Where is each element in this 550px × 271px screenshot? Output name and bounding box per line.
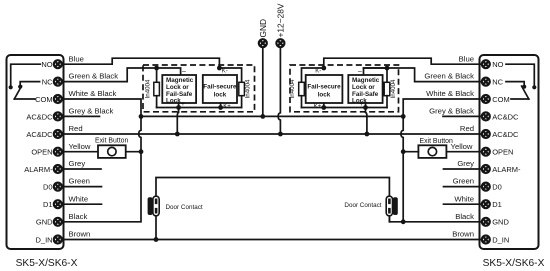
wire + node down to Red bus with hop over GND bus (left) [177,108,178,135]
svg-text:White & Black: White & Black [69,89,117,98]
svg-text:D1: D1 [43,200,53,209]
svg-text:D0: D0 [492,183,502,192]
wire White & Black: left COM down to GND bus [62,99,141,114]
pin stub + of magnetic lock (left) [178,103,180,108]
svg-text:GND: GND [258,19,268,38]
node wire: K- dot to right diode top (left box) [219,68,241,82]
svg-text:Lock or: Lock or [166,84,189,91]
svg-text:SK5-X/SK6-X: SK5-X/SK6-X [483,258,545,269]
terminal COM (left block, pin 3) [54,95,62,103]
svg-text:In4004: In4004 [390,79,397,98]
lock enclosure dashed box (left) [143,65,255,112]
svg-text:lock: lock [214,91,227,98]
exit button circle (left) [108,147,116,155]
junction dot +12~28V / Red bus [278,132,283,137]
terminal COM (right block, pin 3) [482,95,490,103]
junction dot K- (left box) [217,66,222,71]
door contact reed switch part (left) [153,196,159,216]
inner bottom wire (left box): diode to + to K+ to diode [157,107,242,109]
wire Yellow: right OPEN to exit button [446,151,482,153]
svg-text:Exit Button: Exit Button [420,138,453,145]
svg-text:AC&DC: AC&DC [492,112,519,121]
right vertical GND branch with hop over Red bus, down to Black wire [401,116,403,220]
terminal ALARM- (left block, pin 7) [54,165,62,173]
svg-text:Lock or: Lock or [352,84,375,91]
svg-text:Green: Green [453,177,474,186]
svg-text:Grey & Black: Grey & Black [429,107,474,116]
terminal D_IN (right block, pin 11) [482,236,490,244]
terminal NO (right block, pin 1) [482,60,490,68]
junction dot + branch / Red bus (right) [365,132,370,137]
wire Green & Black: right NC to magnetic lock minus node [364,68,482,82]
junction dot minus node / left diode top (left box) [154,66,159,71]
svg-text:In4004: In4004 [245,79,252,98]
svg-text:Blue: Blue [459,54,474,63]
wire right exit button to GND branch [403,151,418,153]
terminal D0 (left block, pin 8) [54,183,62,191]
junction dot + branch / Red bus (left) [175,132,180,137]
svg-text:NC: NC [492,78,503,87]
keypad terminal block SK5-X/SK6-X (left) [7,55,64,249]
node wire minus to right diode (right box) [364,68,388,82]
junction dot exit button / GND branch (right) [401,149,406,154]
terminal AC&DC (left block, pin 4) [54,112,62,120]
door contact magnet part (left) [148,197,153,215]
svg-text:White & Black: White & Black [426,89,474,98]
wire White stub (left D1) [62,203,102,205]
svg-text:Red: Red [69,124,83,133]
inner bottom wire (right box) [302,107,388,109]
terminal NC (left block, pin 2) [54,78,62,86]
terminal ALARM- (right block, pin 7) [482,165,490,173]
svg-text:Grey & Black: Grey & Black [69,107,114,116]
wire Grey stub (left ALARM-) [62,168,101,170]
relay switch lever (left block) [14,86,21,99]
svg-text:+: + [359,101,363,108]
terminal AC&DC (right block, pin 4) [482,112,490,120]
flyback diode In4004 (right box, left) body [299,82,305,95]
exit button switch body (right) [418,145,446,158]
svg-text:Yellow: Yellow [451,142,473,151]
wire exit button (left) to GND branch [126,151,141,153]
svg-text:OPEN: OPEN [31,148,52,157]
svg-text:Door Contact: Door Contact [166,204,203,211]
wire + node down to Red bus with hop over GND bus (right) [366,108,367,135]
keypad terminal block SK5-X/SK6-X (right) [480,55,539,249]
wire Yellow: left OPEN to exit button [62,151,98,153]
relay contact NO arm (right block) [506,64,534,85]
terminal OPEN (left block, pin 6) [54,148,62,156]
terminal D1 (right block, pin 9) [482,200,490,208]
junction dot minus node / right diode top (right box) [385,66,390,71]
svg-text:Black: Black [455,212,474,221]
svg-text:K-: K- [315,68,321,74]
terminal OPEN (right block, pin 6) [482,148,490,156]
power terminal GND (top) [259,39,267,47]
svg-text:ALARM-: ALARM- [492,165,521,174]
wire Blue: left NO to K- node of left fail-secure lock [62,58,220,66]
svg-text:K+: K+ [223,104,231,110]
terminal D_IN (left block, pin 11) [54,236,62,244]
flyback diode In4004 (left box, left) body [156,68,158,82]
svg-text:Door Contact: Door Contact [344,202,381,209]
svg-text:Exit Button: Exit Button [95,138,128,145]
svg-text:AC&DC: AC&DC [26,130,53,139]
relay NO contact dot (left) [9,85,13,89]
svg-text:White: White [454,194,474,203]
exit button circle (right) [428,147,436,155]
wire Green & Black: left NC to magnetic lock minus node [62,68,181,82]
svg-text:–: – [182,68,186,75]
svg-text:Brown: Brown [69,230,91,239]
svg-text:Fail-secure: Fail-secure [203,84,237,91]
wire White & Black: right COM down to GND bus [403,99,482,114]
svg-text:+12~28V: +12~28V [275,3,285,37]
svg-text:Brown: Brown [452,230,474,239]
junction dot COM/GND bus (right) [401,114,406,119]
wire Grey & Black stub (left AC&DC) [62,115,100,117]
svg-text:White: White [69,194,89,203]
wire Green stub (left D0) [62,186,102,188]
junction dot K- (right box) [321,66,326,71]
svg-text:AC&DC: AC&DC [26,112,53,121]
relay switch lever (right block) [522,86,529,99]
svg-text:Grey: Grey [69,159,86,168]
svg-text:Yellow: Yellow [69,142,91,151]
terminal D0 (right block, pin 8) [482,183,490,191]
wire from +12~28V terminal down, hops GND bus, to Red bus [278,47,280,134]
svg-text:D_IN: D_IN [36,235,53,244]
door contact bus wire between both door contacts [156,178,389,240]
svg-text:In4004: In4004 [144,79,151,98]
door contact reed switch part (right) [386,196,392,216]
svg-text:Magnetic: Magnetic [352,77,380,84]
svg-text:ALARM-: ALARM- [24,165,53,174]
svg-text:K-: K- [222,68,228,74]
fail-secure lock box (left) [203,75,237,103]
relay NO contact dot (right) [532,85,536,89]
svg-text:GND: GND [492,218,509,227]
svg-text:COM: COM [35,95,53,104]
svg-text:Green: Green [69,177,90,186]
magnetic lock box (left) [162,75,196,103]
junction dot COM/GND bus (left) [139,114,144,119]
flyback diode In4004 (right box, right) body [384,82,390,95]
junction dot GND branch / Black wire (right) [401,219,406,224]
fail-secure lock box (right) [306,75,343,103]
relay contact NC arm (left block) [20,82,39,85]
relay contact NO arm (left block) [11,64,41,85]
svg-text:Fail-secure: Fail-secure [307,84,341,91]
wire from GND terminal down to GND bus [262,47,264,114]
svg-text:lock: lock [318,91,331,98]
wire Green stub (right D0) [444,186,482,188]
svg-text:NO: NO [41,60,52,69]
svg-text:In4004: In4004 [289,79,296,98]
terminal NO (left block, pin 1) [54,60,62,68]
node wire: left diode top to K- dot (right box) [302,68,324,82]
pin stub K+ of fail-secure lock (right) [323,103,325,108]
power terminal +12~28V (top) [276,39,284,47]
svg-text:Green & Black: Green & Black [424,72,474,81]
junction dot exit button / GND branch (left) [139,149,144,154]
svg-text:SK5-X/SK6-X: SK5-X/SK6-X [16,258,78,269]
svg-text:GND: GND [36,218,53,227]
terminal AC&DC (left block, pin 5) [54,130,62,138]
relay NC contact dot (right) [522,85,526,89]
junction dot door contact / Brown bus (left) [154,237,159,242]
magnetic lock box (right) [348,75,382,103]
terminal GND (left block, pin 10) [54,218,62,226]
svg-text:Blue: Blue [69,54,84,63]
wire Black: right GND terminal to door contact and GND branch [389,216,482,222]
terminal GND (right block, pin 10) [482,218,490,226]
svg-text:COM: COM [492,95,510,104]
GND bus (horizontal, under lock enclosures) [141,115,403,117]
left vertical GND branch with hop over Red bus, to exit button and left GND terminal [62,116,141,221]
Brown bus: D_IN line between both blocks [62,239,482,241]
svg-text:OPEN: OPEN [492,148,513,157]
svg-text:NO: NO [492,60,503,69]
flyback diode In4004 (left box, right) body [239,82,245,95]
svg-text:D1: D1 [492,200,502,209]
svg-text:Magnetic: Magnetic [166,77,194,84]
svg-text:Red: Red [460,124,474,133]
relay NC contact dot (left) [18,85,22,89]
relay COM wire (right block) [511,98,529,100]
relay contact NC arm (right block) [506,82,524,85]
terminal AC&DC (right block, pin 5) [482,130,490,138]
lock enclosure dashed box (right) [290,65,399,112]
relay COM wire (left block) [14,98,35,100]
wire Blue: right NO to K- node of right fail-secure lock [324,58,482,66]
terminal NC (right block, pin 2) [482,78,490,86]
wire White stub (right D1) [444,203,482,205]
junction dot GND terminal / GND bus [260,114,265,119]
Red bus: +12~28V power rail between both AC&DC terminals [62,133,482,135]
pin stub K+ of fail-secure lock (left) [220,103,222,108]
pin stub + of magnetic lock (right) [365,103,367,108]
svg-text:NC: NC [42,78,53,87]
svg-text:–: – [358,68,362,75]
door contact magnet part (right) [393,197,398,215]
svg-text:+: + [181,101,185,108]
wire Grey & Black stub (right AC&DC) [443,115,482,117]
wire Grey stub (right ALARM-) [444,168,482,170]
svg-text:Grey: Grey [457,159,474,168]
terminal D1 (left block, pin 9) [54,200,62,208]
svg-text:D_IN: D_IN [492,235,509,244]
svg-text:Black: Black [69,212,88,221]
svg-text:AC&DC: AC&DC [492,130,519,139]
exit button switch body (left) [98,145,126,158]
svg-text:K+: K+ [314,104,322,110]
svg-text:Green & Black: Green & Black [69,72,119,81]
svg-text:D0: D0 [43,183,53,192]
